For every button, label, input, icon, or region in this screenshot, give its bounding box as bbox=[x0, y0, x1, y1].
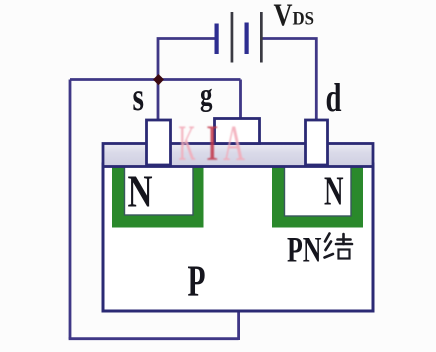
battery B1 plate 3 (short thick, blue) bbox=[245, 23, 249, 55]
svg-text:d: d bbox=[326, 75, 342, 120]
svg-text:I: I bbox=[206, 116, 219, 172]
node junction (source-gate tie point) bbox=[153, 74, 164, 85]
wire: bottom horizontal bbox=[69, 337, 239, 340]
P substrate box bbox=[103, 164, 373, 311]
svg-text:P: P bbox=[188, 257, 206, 306]
svg-text:s: s bbox=[133, 74, 145, 119]
N well right (green diffusion) bbox=[272, 166, 363, 228]
wire: battery right lead and down to d terminal bbox=[262, 39, 317, 121]
svg-text:A: A bbox=[223, 116, 245, 172]
watermark KIA bbox=[179, 116, 246, 172]
N well left interior bbox=[125, 164, 194, 215]
label 结 (junction, hand-drawn CJK glyph) bbox=[325, 234, 353, 259]
wire: riser from bottom wire to P substrate bbox=[237, 311, 240, 340]
svg-text:K: K bbox=[179, 116, 196, 172]
battery B1 plate 2 (long thin, dark) bbox=[231, 12, 234, 63]
N well left (green diffusion) bbox=[112, 166, 204, 228]
svg-text:N: N bbox=[324, 167, 344, 213]
wire: left outer vertical bbox=[69, 80, 72, 339]
svg-text:DS: DS bbox=[293, 10, 315, 30]
svg-text:PN: PN bbox=[287, 229, 322, 269]
battery B1 plate 1 (short thick, blue) bbox=[215, 24, 219, 55]
N well right interior bbox=[285, 164, 352, 216]
oxide/metal strip layer bbox=[103, 144, 373, 167]
battery B1 plate 4 (long thin, dark) bbox=[260, 12, 263, 63]
wire: gate lead down to g contact bbox=[239, 80, 242, 120]
contact s bbox=[147, 120, 171, 165]
contact d bbox=[306, 120, 328, 165]
svg-text:g: g bbox=[200, 76, 213, 112]
svg-text:N: N bbox=[128, 166, 153, 217]
svg-text:V: V bbox=[274, 0, 293, 32]
wire: battery left lead down to s terminal bbox=[158, 39, 215, 121]
wire: horizontal bus at y=79.5 from outer loop to gate lead bbox=[70, 78, 241, 81]
contact g bbox=[215, 119, 260, 144]
